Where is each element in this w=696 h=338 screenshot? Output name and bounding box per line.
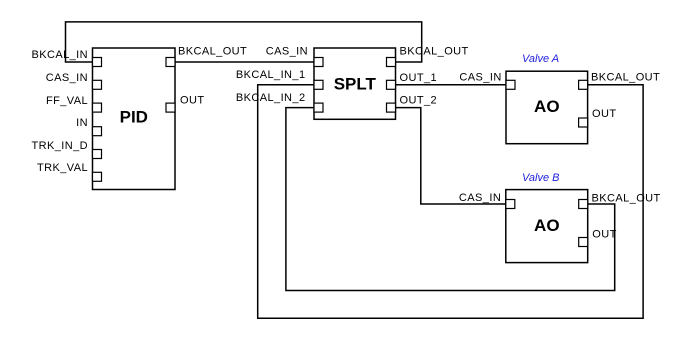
- wire SPLT.OUT_2 to AO-B.CAS_IN: [396, 108, 506, 204]
- pin PID.TRK_VAL: [93, 172, 102, 181]
- label PID.BKCAL_OUT: [178, 45, 247, 57]
- pin PID.IN: [93, 127, 102, 136]
- label PID.TRK_IN_D: [31, 140, 88, 152]
- svg-text:Valve A: Valve A: [522, 53, 559, 65]
- pin PID.BKCAL_OUT: [166, 58, 175, 67]
- pin SPLT.CAS_IN: [314, 58, 323, 67]
- pin AO-A.CAS_IN: [506, 80, 515, 89]
- svg-text:BKCAL_OUT: BKCAL_OUT: [592, 192, 661, 204]
- label PID.OUT: [180, 94, 204, 106]
- pin PID.OUT: [166, 103, 175, 112]
- wire SPLT.BKCAL_OUT to PID.BKCAL_IN (top rail): [66, 22, 422, 62]
- block SPLT: [314, 48, 396, 119]
- svg-text:CAS_IN: CAS_IN: [459, 192, 501, 204]
- svg-text:OUT: OUT: [592, 228, 616, 240]
- label AO-B.BKCAL_OUT: [592, 192, 661, 204]
- pin PID.BKCAL_IN: [93, 58, 102, 67]
- svg-text:OUT: OUT: [180, 94, 204, 106]
- svg-text:AO: AO: [534, 97, 560, 116]
- svg-text:Valve B: Valve B: [522, 172, 560, 184]
- svg-text:CAS_IN: CAS_IN: [46, 72, 88, 84]
- svg-text:BKCAL_IN_1: BKCAL_IN_1: [236, 69, 306, 81]
- label Valve A title: [522, 53, 559, 65]
- svg-text:BKCAL_IN: BKCAL_IN: [31, 49, 88, 61]
- pin SPLT.BKCAL_IN_2: [314, 103, 323, 112]
- label PID.BKCAL_IN: [31, 49, 88, 61]
- label PID.CAS_IN: [46, 72, 88, 84]
- title PID: [120, 108, 148, 127]
- svg-text:BKCAL_OUT: BKCAL_OUT: [591, 72, 660, 84]
- wire PID.BKCAL_OUT to SPLT.CAS_IN: [175, 61, 314, 63]
- block PID: [93, 48, 176, 190]
- pin SPLT.OUT_2: [387, 103, 396, 112]
- pin SPLT.OUT_1: [387, 80, 396, 89]
- svg-text:IN: IN: [76, 117, 88, 129]
- label AO-B.CAS_IN: [459, 192, 501, 204]
- svg-text:AO: AO: [534, 216, 560, 235]
- wire SPLT.OUT_1 to AO-A.CAS_IN: [396, 84, 507, 86]
- svg-text:TRK_IN_D: TRK_IN_D: [31, 140, 88, 152]
- svg-text:OUT_2: OUT_2: [400, 95, 438, 107]
- label AO-A.CAS_IN: [459, 72, 501, 84]
- pin AO-A.BKCAL_OUT: [579, 80, 588, 89]
- pin AO-B.OUT: [579, 238, 588, 247]
- label Valve B title: [522, 172, 560, 184]
- svg-text:SPLT: SPLT: [334, 75, 377, 94]
- label AO-A.BKCAL_OUT: [591, 72, 660, 84]
- pin AO-B.CAS_IN: [506, 200, 515, 209]
- svg-text:PID: PID: [120, 108, 148, 127]
- label SPLT.BKCAL_IN_2: [236, 92, 306, 104]
- label SPLT.BKCAL_OUT: [400, 45, 469, 57]
- wire AO-A.BKCAL_OUT to SPLT.BKCAL_IN_1 (outer loop): [258, 85, 643, 318]
- svg-text:TRK_VAL: TRK_VAL: [37, 162, 88, 174]
- label SPLT.BKCAL_IN_1: [236, 69, 306, 81]
- svg-text:BKCAL_OUT: BKCAL_OUT: [400, 45, 469, 57]
- svg-text:CAS_IN: CAS_IN: [459, 72, 501, 84]
- svg-text:CAS_IN: CAS_IN: [266, 45, 308, 57]
- svg-text:BKCAL_IN_2: BKCAL_IN_2: [236, 92, 306, 104]
- title SPLT: [334, 75, 377, 94]
- block AO Valve B: [506, 190, 588, 263]
- pin SPLT.BKCAL_IN_1: [314, 80, 323, 89]
- pin AO-B.BKCAL_OUT: [579, 200, 588, 209]
- label AO-B.OUT: [592, 228, 616, 240]
- label PID.FF_VAL: [46, 95, 88, 107]
- pin SPLT.BKCAL_OUT: [387, 58, 396, 67]
- pin PID.CAS_IN: [93, 80, 102, 89]
- svg-text:OUT_1: OUT_1: [400, 72, 438, 84]
- label AO-A.OUT: [592, 108, 616, 120]
- label SPLT.CAS_IN: [266, 45, 308, 57]
- pin PID.FF_VAL: [93, 103, 102, 112]
- title AO-B: [534, 216, 560, 235]
- label PID.IN: [76, 117, 88, 129]
- title AO-A: [534, 97, 560, 116]
- block AO Valve A: [506, 71, 588, 144]
- label PID.TRK_VAL: [37, 162, 88, 174]
- svg-text:OUT: OUT: [592, 108, 616, 120]
- pin AO-A.OUT: [579, 118, 588, 127]
- wire AO-B.BKCAL_OUT to SPLT.BKCAL_IN_2 (inner loop): [286, 108, 615, 291]
- pin PID.TRK_IN_D: [93, 150, 102, 159]
- svg-text:FF_VAL: FF_VAL: [46, 95, 88, 107]
- label SPLT.OUT_1: [400, 72, 438, 84]
- label SPLT.OUT_2: [400, 95, 438, 107]
- svg-text:BKCAL_OUT: BKCAL_OUT: [178, 45, 247, 57]
